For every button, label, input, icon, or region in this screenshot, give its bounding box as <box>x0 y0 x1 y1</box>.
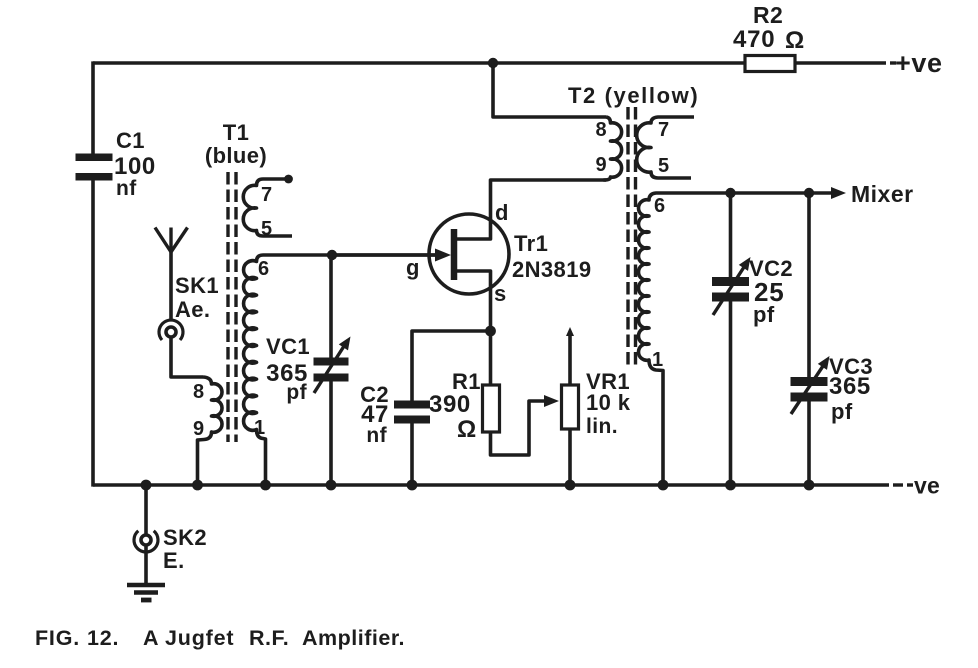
transformer T2 core <box>628 107 636 368</box>
svg-text:2N3819: 2N3819 <box>512 257 591 282</box>
junction source node <box>485 326 496 337</box>
svg-text:6: 6 <box>654 195 666 217</box>
T2 pin 9 label <box>595 154 607 176</box>
svg-text:C1: C1 <box>116 128 145 153</box>
resistor R2 <box>745 56 795 72</box>
T2 winding pins 8-9 <box>604 117 622 180</box>
node -ve label <box>914 473 940 499</box>
svg-text:9: 9 <box>193 418 205 440</box>
svg-text:Ω: Ω <box>785 27 805 54</box>
T2 pin 5 label <box>658 155 670 177</box>
wire VC3 top <box>807 193 811 377</box>
svg-text:pf: pf <box>286 381 307 404</box>
Tr1 terminal labels <box>406 200 509 306</box>
svg-text:8: 8 <box>595 119 607 141</box>
svg-text:8: 8 <box>193 381 205 403</box>
svg-text:470: 470 <box>733 26 775 53</box>
wire -ve bottom rail <box>93 483 913 487</box>
T2 winding pins 7-5 <box>637 117 694 178</box>
svg-text:T1: T1 <box>223 120 249 145</box>
junction bottom rail T2 pin1 <box>658 480 669 491</box>
Tr1 drain lead <box>456 180 606 239</box>
caption FIG. 12 <box>35 626 405 650</box>
svg-text:ve: ve <box>914 473 940 499</box>
wire source to R1 <box>489 331 493 385</box>
potentiometer VR1 <box>562 385 579 429</box>
junction bottom rail VC2 <box>725 480 736 491</box>
svg-text:SK1: SK1 <box>175 273 219 298</box>
T2 label <box>568 83 699 108</box>
svg-text:VC1: VC1 <box>266 334 310 359</box>
svg-text:Jugfet: Jugfet <box>165 626 234 650</box>
C1 value label <box>114 128 156 200</box>
svg-text:100: 100 <box>114 153 156 180</box>
capacitor VC2 <box>712 277 749 302</box>
svg-text:Ω: Ω <box>457 416 477 443</box>
svg-text:g: g <box>406 255 420 280</box>
VR1 top lead <box>566 327 574 385</box>
VC2 value label <box>749 256 793 327</box>
T1 pin 5 label <box>261 218 273 240</box>
T2 pin 6 label <box>654 195 666 217</box>
SK2 label <box>163 525 207 573</box>
wire left vertical (C1 branch) <box>91 61 95 486</box>
junction bottom rail VC3 <box>804 480 815 491</box>
T2 pin 7 label <box>658 119 670 141</box>
VC2 arrow <box>713 257 751 315</box>
svg-text:9: 9 <box>595 154 607 176</box>
wire +ve to T2 pin 8 <box>493 63 606 117</box>
capacitor C2 <box>394 401 430 424</box>
SK1 label <box>175 273 219 322</box>
C2 value label <box>360 382 389 447</box>
junction bottom rail SK2 branch <box>141 480 152 491</box>
svg-text:d: d <box>495 200 509 225</box>
svg-text:A: A <box>143 626 159 650</box>
T1 pin 7 label <box>261 184 273 206</box>
svg-text:SK2: SK2 <box>163 525 207 550</box>
svg-text:10 k: 10 k <box>586 390 631 415</box>
svg-text:T2 (yellow): T2 (yellow) <box>568 83 699 108</box>
T1 winding pins 7-5 <box>243 175 293 236</box>
svg-text:1: 1 <box>652 349 664 371</box>
wire VC1 top <box>329 255 333 358</box>
resistor R1 <box>483 385 500 432</box>
wire VC2 bottom <box>729 302 733 486</box>
junction bottom rail T1 pin1 <box>260 480 271 491</box>
svg-text:Amplifier.: Amplifier. <box>302 626 405 650</box>
svg-text:E.: E. <box>163 548 185 573</box>
wire SK2 to earth <box>144 545 148 585</box>
svg-text:FIG.: FIG. <box>35 626 80 650</box>
svg-text:6: 6 <box>258 258 270 280</box>
svg-text:365: 365 <box>829 373 871 400</box>
svg-text:+ve: +ve <box>895 48 943 78</box>
capacitor VC3 <box>791 377 828 402</box>
transistor Tr1 body <box>429 214 509 294</box>
junction bottom rail VC1 <box>326 480 337 491</box>
junction bottom rail VR1 <box>565 480 576 491</box>
T1 winding pins 6-1 <box>244 255 300 485</box>
svg-text:7: 7 <box>658 119 670 141</box>
wire C2 bottom <box>410 424 414 486</box>
wire VC2 top <box>729 193 733 277</box>
wire VC3 bottom <box>807 402 811 486</box>
T1 pin 6 label <box>258 258 270 280</box>
ground <box>127 585 165 600</box>
capacitor VC1 <box>314 358 349 382</box>
junction VC2 top <box>725 188 735 198</box>
capacitor C1 <box>76 154 113 181</box>
wire T1 pin6 to gate <box>300 253 436 257</box>
svg-text:(blue): (blue) <box>205 143 267 168</box>
T1 winding pins 8-9 <box>198 377 223 485</box>
wire +ve top rail <box>93 61 896 65</box>
svg-text:pf: pf <box>753 302 775 327</box>
junction VC3 top <box>804 188 814 198</box>
node +ve label <box>895 48 943 78</box>
svg-text:390: 390 <box>429 391 471 418</box>
svg-text:1: 1 <box>254 417 266 439</box>
T2 pin 1 label <box>652 349 664 371</box>
svg-text:Ae.: Ae. <box>175 297 210 322</box>
T1 pin 1 label <box>254 417 266 439</box>
VC3 value label <box>829 354 873 424</box>
mixer arrow <box>831 187 846 199</box>
svg-text:Tr1: Tr1 <box>514 231 548 256</box>
VC1 arrow <box>314 337 351 394</box>
svg-text:nf: nf <box>366 424 387 447</box>
T1 pin 9 label <box>193 418 205 440</box>
R2 value label <box>733 2 805 54</box>
Tr1 source lead <box>456 271 491 331</box>
junction bottom rail T1 pin9 <box>192 480 203 491</box>
svg-text:7: 7 <box>261 184 273 206</box>
T2 winding pins 6-1 <box>638 193 700 485</box>
wire VC1 bottom <box>329 382 333 486</box>
junction gate/VC1 node <box>327 250 337 260</box>
VR1 value label <box>586 369 631 438</box>
T1 label <box>205 120 267 168</box>
junction bottom rail C2 <box>407 480 418 491</box>
VC1 value label <box>266 334 310 404</box>
svg-text:nf: nf <box>116 177 137 200</box>
junction top rail to T2 primary <box>488 58 498 68</box>
wire SK1 to T1 pin 8 <box>171 337 203 377</box>
transformer T1 core <box>228 172 236 442</box>
Tr1 name label <box>512 231 591 282</box>
svg-text:R2: R2 <box>753 2 783 28</box>
Tr1 gate lead <box>332 249 451 262</box>
wire R1 to VR1 wiper <box>491 395 560 455</box>
svg-text:5: 5 <box>658 155 670 177</box>
T1 pin 8 label <box>193 381 205 403</box>
svg-text:s: s <box>494 281 507 306</box>
svg-text:R.F.: R.F. <box>249 626 289 650</box>
svg-text:5: 5 <box>261 218 273 240</box>
VC3 arrow <box>791 356 830 414</box>
antenna Ae <box>155 228 188 321</box>
socket SK2 <box>134 531 158 552</box>
Tr1 channel bar <box>451 229 458 280</box>
wire VR1 bottom <box>568 429 572 485</box>
wire rail to SK2 <box>144 485 148 535</box>
socket SK1 <box>159 320 183 340</box>
svg-text:pf: pf <box>831 399 853 424</box>
svg-text:Mixer: Mixer <box>851 181 914 207</box>
T2 pin 8 label <box>595 119 607 141</box>
wire mixer line <box>700 191 832 195</box>
svg-text:lin.: lin. <box>586 415 618 438</box>
wire source to C2 <box>412 331 491 401</box>
svg-text:12.: 12. <box>87 626 119 650</box>
node Mixer label <box>851 181 914 207</box>
R1 value label <box>429 369 481 443</box>
